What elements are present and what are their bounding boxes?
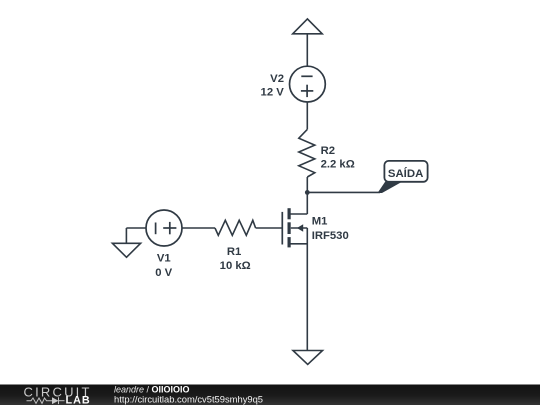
svg-text:V2: V2	[270, 73, 284, 85]
svg-text:10 kΩ: 10 kΩ	[220, 260, 251, 272]
svg-text:IRF530: IRF530	[312, 230, 349, 242]
svg-text:0 V: 0 V	[155, 267, 172, 279]
svg-text:http://circuitlab.com/cv5t59sm: http://circuitlab.com/cv5t59smhy9q5	[114, 393, 263, 404]
svg-text:SAÍDA: SAÍDA	[388, 167, 423, 180]
svg-text:R1: R1	[227, 246, 241, 258]
svg-text:12 V: 12 V	[261, 86, 285, 98]
svg-text:R2: R2	[321, 145, 335, 157]
svg-text:LAB: LAB	[66, 395, 91, 405]
svg-text:2.2 kΩ: 2.2 kΩ	[321, 159, 355, 171]
svg-text:V1: V1	[157, 252, 171, 264]
svg-text:M1: M1	[312, 215, 328, 227]
